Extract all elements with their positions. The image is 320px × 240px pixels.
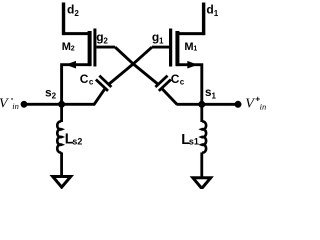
- label Vin+: [245, 93, 266, 111]
- svg-text:C: C: [171, 72, 180, 86]
- svg-text:in: in: [12, 101, 19, 111]
- label Ls2: [65, 132, 83, 148]
- transistor M1 gate bar: [169, 29, 172, 67]
- label g1: [152, 30, 164, 45]
- wire cross to s2 lower segment: [94, 88, 105, 104]
- wire M1 gate lead: [152, 46, 169, 49]
- svg-text:1: 1: [193, 46, 197, 53]
- label Cc left: [80, 72, 94, 87]
- label d2: [67, 3, 79, 19]
- wire M2 gate lead: [96, 46, 115, 49]
- svg-text:d: d: [67, 3, 74, 17]
- svg-text:1: 1: [214, 9, 219, 18]
- label g2: [96, 30, 108, 45]
- svg-text:c: c: [89, 77, 94, 86]
- svg-text:V: V: [0, 96, 9, 111]
- label s2: [45, 85, 57, 100]
- wire cross to s1 lower segment: [162, 88, 177, 104]
- svg-text:C: C: [80, 72, 89, 86]
- wire d2 drain lead: [62, 2, 91, 35]
- svg-text:d: d: [206, 3, 213, 17]
- svg-text:M: M: [62, 41, 71, 53]
- wire bottom rail left: [23, 103, 95, 106]
- wire d1 drain lead: [176, 3, 205, 36]
- ground left: [53, 176, 71, 187]
- svg-text:2: 2: [71, 46, 75, 53]
- svg-text:2: 2: [103, 37, 108, 46]
- M2 source arrow: [66, 61, 77, 69]
- transistor M1 channel bar: [175, 31, 179, 66]
- wire cross g1 to s2 upper segment: [109, 47, 152, 84]
- svg-text:1: 1: [211, 92, 216, 101]
- svg-text:s2: s2: [72, 136, 82, 146]
- transistor M2 gate bar: [93, 28, 96, 66]
- label Ls1: [181, 132, 199, 148]
- wire bottom rail right: [176, 103, 238, 106]
- label s1: [205, 85, 217, 100]
- label M1: [184, 41, 197, 53]
- svg-text:1: 1: [159, 37, 164, 46]
- M1 source arrow: [187, 61, 198, 69]
- svg-text:in: in: [260, 102, 267, 112]
- transistor M2 channel bar: [88, 31, 92, 66]
- node s2 junction dot: [58, 101, 65, 108]
- node s1 junction dot: [198, 101, 205, 108]
- capacitor Cc right plates: [155, 76, 171, 91]
- terminal dot Vin+: [234, 101, 241, 108]
- svg-text:2: 2: [52, 92, 57, 101]
- svg-text:s1: s1: [189, 137, 199, 147]
- svg-text:c: c: [180, 77, 185, 86]
- label Cc right: [171, 72, 185, 87]
- wire cross g2 to s1 upper segment: [115, 47, 158, 84]
- terminal dot Vin-: [21, 101, 28, 108]
- label Vin-: [0, 94, 19, 111]
- ground right: [193, 178, 211, 189]
- inductor Ls2: [57, 104, 61, 177]
- svg-text:V: V: [245, 97, 255, 112]
- label M2: [62, 41, 75, 53]
- svg-text:2: 2: [74, 9, 79, 18]
- wire M2 source to node s2: [62, 65, 91, 105]
- svg-text:M: M: [184, 41, 193, 53]
- label d1: [206, 3, 218, 19]
- capacitor Cc left plates: [96, 76, 112, 91]
- inductor Ls1: [202, 104, 206, 178]
- wire M1 source to node s1: [176, 65, 202, 105]
